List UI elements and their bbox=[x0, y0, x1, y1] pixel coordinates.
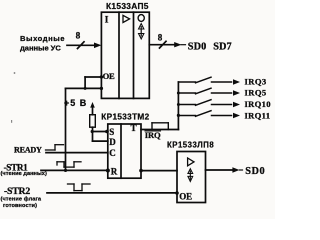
svg-text:КР1533ЛП8: КР1533ЛП8 bbox=[167, 140, 214, 149]
svg-text:SD7: SD7 bbox=[213, 41, 232, 52]
svg-text:SD0: SD0 bbox=[245, 166, 265, 177]
svg-text:D: D bbox=[109, 137, 116, 147]
svg-text:8: 8 bbox=[76, 32, 81, 42]
svg-text:S: S bbox=[109, 127, 114, 137]
svg-text:R: R bbox=[111, 166, 118, 176]
svg-text:OE: OE bbox=[103, 71, 115, 81]
svg-text:I: I bbox=[105, 16, 109, 26]
svg-text:-STR2: -STR2 bbox=[4, 186, 30, 197]
svg-text:IRQ5: IRQ5 bbox=[245, 87, 267, 97]
svg-text:данные УС: данные УС bbox=[20, 43, 61, 52]
svg-text:К1533АП5: К1533АП5 bbox=[106, 1, 149, 11]
svg-text:SD0: SD0 bbox=[188, 41, 207, 52]
svg-text:T: T bbox=[131, 123, 137, 133]
svg-text:IRQ11: IRQ11 bbox=[245, 110, 271, 120]
svg-text:READY: READY bbox=[14, 145, 42, 154]
svg-text:Выходные: Выходные bbox=[20, 34, 65, 43]
svg-text:C: C bbox=[109, 148, 116, 158]
svg-text:8: 8 bbox=[158, 32, 163, 42]
svg-text:IRQ10: IRQ10 bbox=[245, 99, 271, 109]
svg-text:готовности): готовности) bbox=[3, 203, 37, 209]
svg-text:КР1533ТМ2: КР1533ТМ2 bbox=[101, 113, 149, 122]
svg-text:IRQ3: IRQ3 bbox=[245, 76, 267, 86]
svg-text:+5 В: +5 В bbox=[64, 98, 87, 108]
svg-text:OE: OE bbox=[179, 191, 192, 201]
svg-text:IRQ: IRQ bbox=[145, 130, 161, 140]
svg-text:(чтение флага: (чтение флага bbox=[1, 195, 42, 202]
svg-text:(чтение данных): (чтение данных) bbox=[1, 171, 47, 177]
